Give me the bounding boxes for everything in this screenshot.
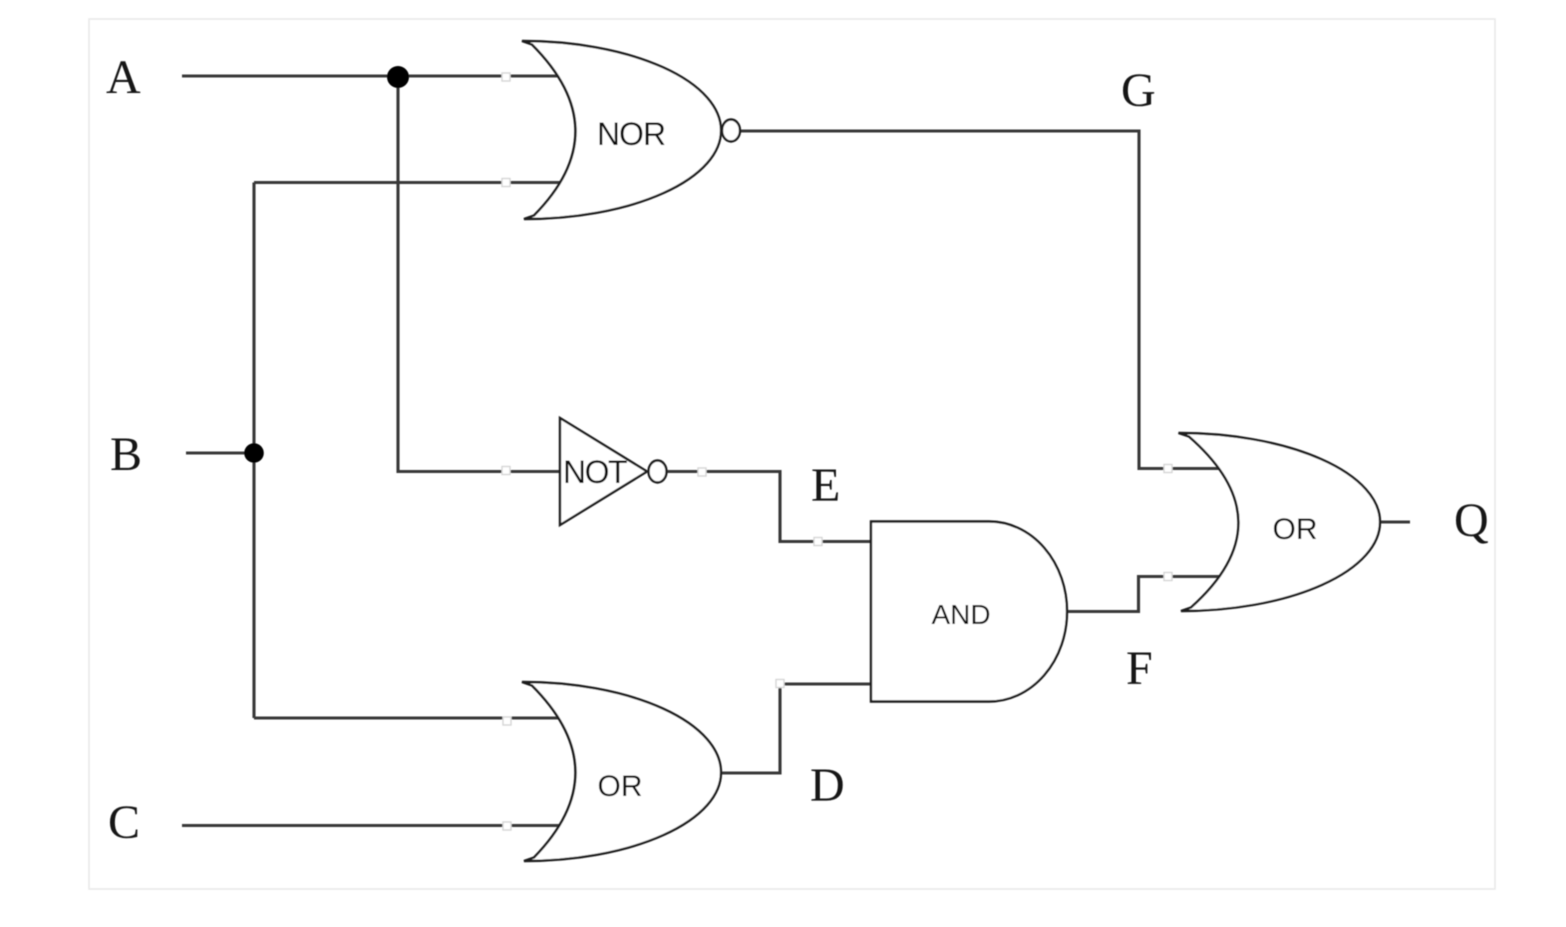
wire G: NOR output to OR2 input	[740, 131, 1228, 469]
svg-text:NOT: NOT	[563, 454, 627, 490]
pin marker OR1 in1	[503, 717, 511, 725]
svg-text:D: D	[810, 759, 845, 812]
svg-text:OR: OR	[1273, 513, 1318, 546]
wire A to NOT (vertical drop and horizontal)	[398, 76, 562, 472]
svg-text:Q: Q	[1454, 494, 1489, 547]
svg-text:G: G	[1121, 64, 1156, 117]
svg-text:B: B	[110, 428, 142, 481]
pin marker OR2 in2	[1164, 573, 1172, 581]
svg-text:E: E	[811, 459, 840, 512]
wire B input	[186, 451, 254, 454]
svg-text:A: A	[106, 51, 141, 104]
pin marker NOT in	[502, 467, 510, 475]
pin marker OR1 in2	[503, 822, 511, 830]
NOR gate U1 body	[522, 41, 721, 219]
node A junction dot	[387, 66, 409, 88]
node B junction dot	[244, 443, 264, 463]
pin marker NOT out	[698, 468, 706, 476]
OR gate U3 body (bottom)	[522, 682, 721, 861]
OR gate U5 body (right)	[1179, 433, 1381, 611]
wire D: OR1 output to AND input	[721, 684, 875, 773]
svg-text:C: C	[108, 796, 140, 849]
wire A input	[182, 74, 566, 77]
wire B vertical bus	[252, 183, 255, 719]
NOT gate U2 output bubble	[649, 461, 667, 483]
pin marker AND in2	[776, 680, 784, 688]
NOR gate U1 output bubble	[722, 120, 740, 142]
pin marker AND in1	[814, 538, 822, 546]
NOT gate U2 body	[560, 418, 647, 525]
wire C input	[182, 824, 566, 827]
svg-text:OR: OR	[598, 770, 643, 803]
wire Q output stub	[1381, 520, 1410, 523]
pin marker OR2 in1	[1164, 465, 1172, 473]
wire B to NOR lower input	[254, 181, 566, 184]
svg-text:NOR: NOR	[597, 116, 665, 152]
wire B to OR1 upper input	[254, 716, 566, 719]
wire E: NOT output to AND input	[667, 472, 875, 542]
pin marker NOR in2	[502, 179, 510, 187]
wire F: AND output to OR2 input	[1066, 577, 1228, 612]
pin marker NOR in1	[502, 73, 510, 81]
svg-text:F: F	[1126, 642, 1153, 695]
AND gate U4 body	[871, 522, 1067, 702]
svg-text:AND: AND	[931, 599, 990, 630]
